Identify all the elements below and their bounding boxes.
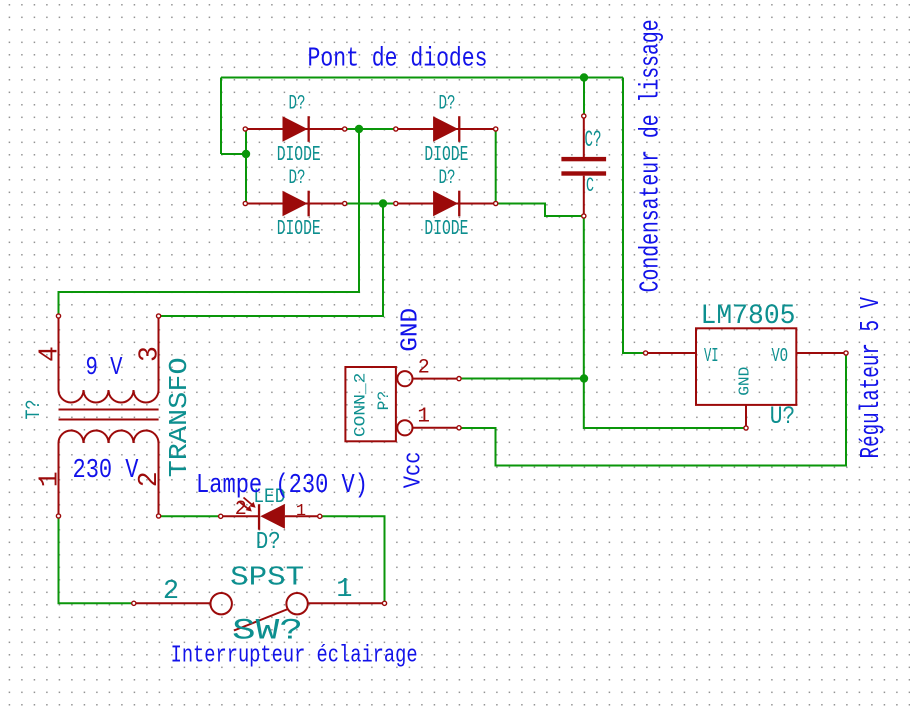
diode D? (bridge top-left) bbox=[243, 116, 347, 142]
pin circle U? VO bbox=[844, 351, 848, 355]
pin circle P? pin 2 bbox=[457, 377, 461, 381]
wire from D4 cathode to capacitor bottom pin bbox=[496, 204, 584, 217]
junction row2 AC tap bbox=[379, 199, 387, 207]
junction top bus / capacitor bbox=[580, 73, 588, 81]
svg-text:D?: D? bbox=[439, 167, 456, 190]
pin circle U? GND bbox=[744, 426, 748, 430]
svg-text:DIODE: DIODE bbox=[277, 218, 321, 241]
pin circle U? VI bbox=[644, 351, 648, 355]
svg-text:Lampe (230 V): Lampe (230 V) bbox=[196, 470, 368, 500]
svg-text:Pont de diodes: Pont de diodes bbox=[308, 43, 488, 73]
svg-text:DIODE: DIODE bbox=[424, 144, 468, 167]
svg-text:1: 1 bbox=[336, 575, 352, 605]
svg-text:DIODE: DIODE bbox=[424, 218, 468, 241]
switch lever bbox=[234, 609, 288, 631]
svg-text:P?: P? bbox=[375, 391, 393, 411]
diode D? (bridge bottom-left) bbox=[243, 191, 347, 217]
pin circle T? pin 1 bbox=[56, 514, 60, 518]
svg-text:2: 2 bbox=[235, 498, 247, 521]
svg-text:VO: VO bbox=[772, 345, 788, 367]
core lines bbox=[59, 409, 159, 411]
secondary winding (pins 1-2, bottom) bbox=[59, 430, 159, 516]
svg-text:2: 2 bbox=[134, 471, 164, 487]
pin circle P? pin 1 bbox=[457, 426, 461, 430]
svg-text:2: 2 bbox=[163, 577, 179, 607]
wire left drop from top bus to bridge left node bbox=[220, 78, 222, 155]
connector P? CONN_2 bbox=[345, 367, 459, 441]
wire AC feed from row1 node down and left to transformer pin 4 bbox=[59, 129, 360, 316]
svg-text:1: 1 bbox=[417, 406, 430, 429]
wire row1 segment between D1 cathode and D3 anode bbox=[345, 128, 396, 130]
pin circle T? pin 4 bbox=[56, 314, 60, 318]
svg-text:C?: C? bbox=[585, 127, 602, 153]
LED D? (lamp) bbox=[219, 498, 322, 530]
capacitor C? bbox=[561, 114, 606, 218]
pin circle SW? pin 1 bbox=[382, 601, 386, 605]
junction GND rail / connector pin 2 bbox=[580, 374, 588, 382]
svg-text:D?: D? bbox=[289, 93, 306, 116]
wire capacitor bottom rail down to regulator GND pin bbox=[584, 216, 746, 428]
svg-text:1: 1 bbox=[296, 502, 306, 521]
svg-text:SPST: SPST bbox=[230, 564, 304, 594]
regulator U? LM7805 bbox=[646, 328, 846, 428]
junction bridge left node bbox=[242, 150, 250, 158]
svg-text:C: C bbox=[586, 175, 594, 198]
svg-text:1: 1 bbox=[34, 471, 64, 487]
pin circle T? pin 2 bbox=[157, 514, 161, 518]
svg-text:D?: D? bbox=[439, 93, 456, 116]
svg-text:Condensateur de lissage: Condensateur de lissage bbox=[636, 19, 666, 292]
svg-text:3: 3 bbox=[135, 346, 165, 362]
wire stub into bridge left node bbox=[221, 153, 246, 155]
wire from connector pin 1 to regulator output VO bbox=[459, 353, 846, 466]
svg-text:DIODE: DIODE bbox=[277, 144, 321, 167]
svg-text:GND: GND bbox=[398, 308, 425, 352]
wire transformer pin 1 down and right to switch pin 2 bbox=[59, 516, 134, 603]
svg-text:TRANSFO: TRANSFO bbox=[164, 357, 194, 477]
wire from top bus down to regulator input VI bbox=[623, 78, 646, 354]
svg-text:Régulateur 5 V: Régulateur 5 V bbox=[856, 297, 886, 459]
svg-text:VI: VI bbox=[704, 345, 719, 367]
diode D? (bridge bottom-right) bbox=[394, 191, 498, 217]
pin circle T? pin 3 bbox=[157, 314, 161, 318]
svg-text:LM7805: LM7805 bbox=[701, 301, 796, 332]
wire top bus from bridge AC corner to regulator input drop bbox=[221, 77, 623, 79]
wire AC feed from row2 node down and left to transformer pin 3 bbox=[159, 204, 383, 317]
wire row2 segment between D2 cathode and D4 anode bbox=[345, 203, 396, 205]
svg-text:9 V: 9 V bbox=[86, 353, 124, 382]
wire from top bus junction down to capacitor top pin bbox=[583, 78, 585, 117]
pin circle SW? pin 2 bbox=[132, 601, 136, 605]
svg-text:2: 2 bbox=[418, 357, 430, 380]
wire LED cathode right and down to switch pin 1 bbox=[320, 516, 385, 603]
transformer T? bbox=[59, 316, 159, 516]
svg-text:Interrupteur éclairage: Interrupteur éclairage bbox=[171, 643, 418, 670]
wire joining D3/D4 cathodes on the right bbox=[495, 129, 497, 204]
wire transformer pin 2 to LED anode bbox=[159, 515, 221, 517]
svg-text:T?: T? bbox=[23, 400, 46, 420]
svg-text:D?: D? bbox=[256, 529, 281, 556]
diode D? (bridge top-right) bbox=[394, 116, 498, 142]
svg-text:230 V: 230 V bbox=[73, 456, 140, 486]
svg-text:CONN_2: CONN_2 bbox=[351, 373, 369, 438]
switch SW? SPST bbox=[134, 593, 385, 631]
LED arrow 2 bbox=[239, 502, 249, 511]
svg-text:Vcc: Vcc bbox=[401, 452, 428, 489]
svg-text:4: 4 bbox=[34, 346, 64, 362]
svg-text:GND: GND bbox=[737, 367, 754, 396]
LED arrow 1 bbox=[244, 498, 254, 507]
primary winding (pins 4-3, top) bbox=[59, 316, 159, 402]
wire bridge left vertical joining D1/D2 anodes bbox=[245, 129, 247, 204]
wire from connector pin 2 to GND rail junction bbox=[459, 378, 584, 380]
svg-text:U?: U? bbox=[770, 402, 796, 431]
svg-text:D?: D? bbox=[289, 167, 306, 190]
junction row1 AC tap bbox=[355, 125, 363, 133]
